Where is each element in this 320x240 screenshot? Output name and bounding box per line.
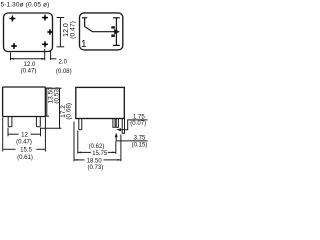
svg-text:2.0: 2.0: [59, 58, 68, 65]
svg-text:(0.61): (0.61): [17, 155, 33, 161]
extension line left pin 15.75: [77, 131, 79, 154]
vertical dimension 13.50 line: [45, 88, 49, 116]
leader of 1.75 with arrow: [121, 120, 148, 130]
extension line from bottom-left hole: [10, 53, 12, 61]
svg-text:18.50: 18.50: [87, 158, 103, 165]
hole crosshair bottom-left: [11, 43, 17, 49]
break contact pad: [111, 26, 115, 28]
svg-text:1: 1: [81, 39, 87, 50]
pin 1 terminal bar: [82, 17, 87, 19]
side view body: [3, 87, 46, 117]
front view left pin: [79, 119, 82, 130]
hole crosshair middle-right: [47, 29, 53, 35]
svg-text:(0.07): (0.07): [130, 121, 146, 127]
bottom view outline: [4, 13, 53, 52]
dimension line 12 right part: [31, 133, 41, 135]
extension line right 15.75: [115, 142, 117, 154]
top extension line for 17.2: [45, 87, 61, 89]
fixed contact terminal bar top: [113, 17, 120, 19]
front view right pin: [122, 119, 124, 134]
extension line right 18.50: [120, 135, 122, 162]
side view right pin: [36, 117, 40, 127]
hole crosshair top-right: [42, 15, 48, 21]
dimension line 15.75 right part: [108, 151, 116, 153]
hole crosshair bottom-right: [42, 41, 48, 47]
extension line left body 18.50: [73, 122, 75, 162]
dimension line 12 left part: [8, 133, 19, 135]
fixed contact lead: [115, 18, 117, 46]
svg-text:(0.47): (0.47): [21, 68, 37, 74]
bottom extension line for 17.2: [41, 127, 62, 129]
front view body: [76, 87, 125, 118]
extension line body left 15.5: [2, 117, 4, 151]
svg-text:15.75: 15.75: [92, 150, 108, 157]
pin 1 lead: [84, 18, 86, 27]
dimension line 15.5 right part: [36, 148, 45, 150]
extension line right pin 12: [40, 128, 42, 137]
svg-text:5-1.30ø (0.05 ø): 5-1.30ø (0.05 ø): [1, 1, 50, 8]
svg-text:(0.73): (0.73): [88, 165, 104, 171]
schematic outline: [80, 13, 123, 50]
movable contact arm: [85, 27, 115, 32]
dimension line 15.5 left part: [3, 148, 16, 150]
side view left pin: [8, 117, 12, 127]
hole crosshair top-left: [9, 16, 15, 22]
svg-text:(0.47): (0.47): [16, 140, 32, 146]
arrowheads of 12.0 dimension: [11, 58, 15, 60]
vertical dimension 17.2 line: [59, 88, 61, 128]
svg-text:(0.08): (0.08): [56, 69, 72, 75]
contact arm arrowhead: [114, 29, 120, 35]
make contact pad: [111, 35, 115, 37]
front view inner pin a: [113, 119, 115, 128]
svg-text:12.0: 12.0: [24, 61, 36, 68]
fixed contact terminal bar bottom: [113, 44, 120, 46]
dimension line 15.75 left part: [78, 151, 91, 153]
svg-text:(0.47): (0.47): [69, 21, 76, 39]
dimension line 18.50 right part: [104, 159, 121, 161]
svg-text:1.75: 1.75: [133, 114, 145, 121]
leader line to 2.0 text: [51, 58, 57, 60]
extension line from bottom-right hole: [44, 49, 46, 61]
svg-text:15.5: 15.5: [20, 147, 32, 154]
dimension line 18.50 left part: [74, 159, 85, 161]
svg-text:12: 12: [21, 132, 28, 139]
vertical dimension 12.0 line right of bottom view: [57, 18, 65, 47]
extension line left pin 12: [7, 128, 9, 137]
arrowheads 18.50: [74, 159, 78, 161]
arrowheads 15.75: [78, 152, 82, 154]
front view inner pin b: [116, 119, 118, 128]
svg-text:3.75: 3.75: [134, 135, 146, 142]
horizontal dimension line 12.0: [11, 58, 45, 60]
svg-text:(0.68): (0.68): [66, 103, 73, 120]
leader of 3.75 with up arrow: [116, 137, 148, 141]
extension line body right 15.5: [44, 117, 46, 151]
svg-text:(0.15): (0.15): [132, 143, 148, 149]
extension line from middle-right hole: [50, 51, 52, 61]
